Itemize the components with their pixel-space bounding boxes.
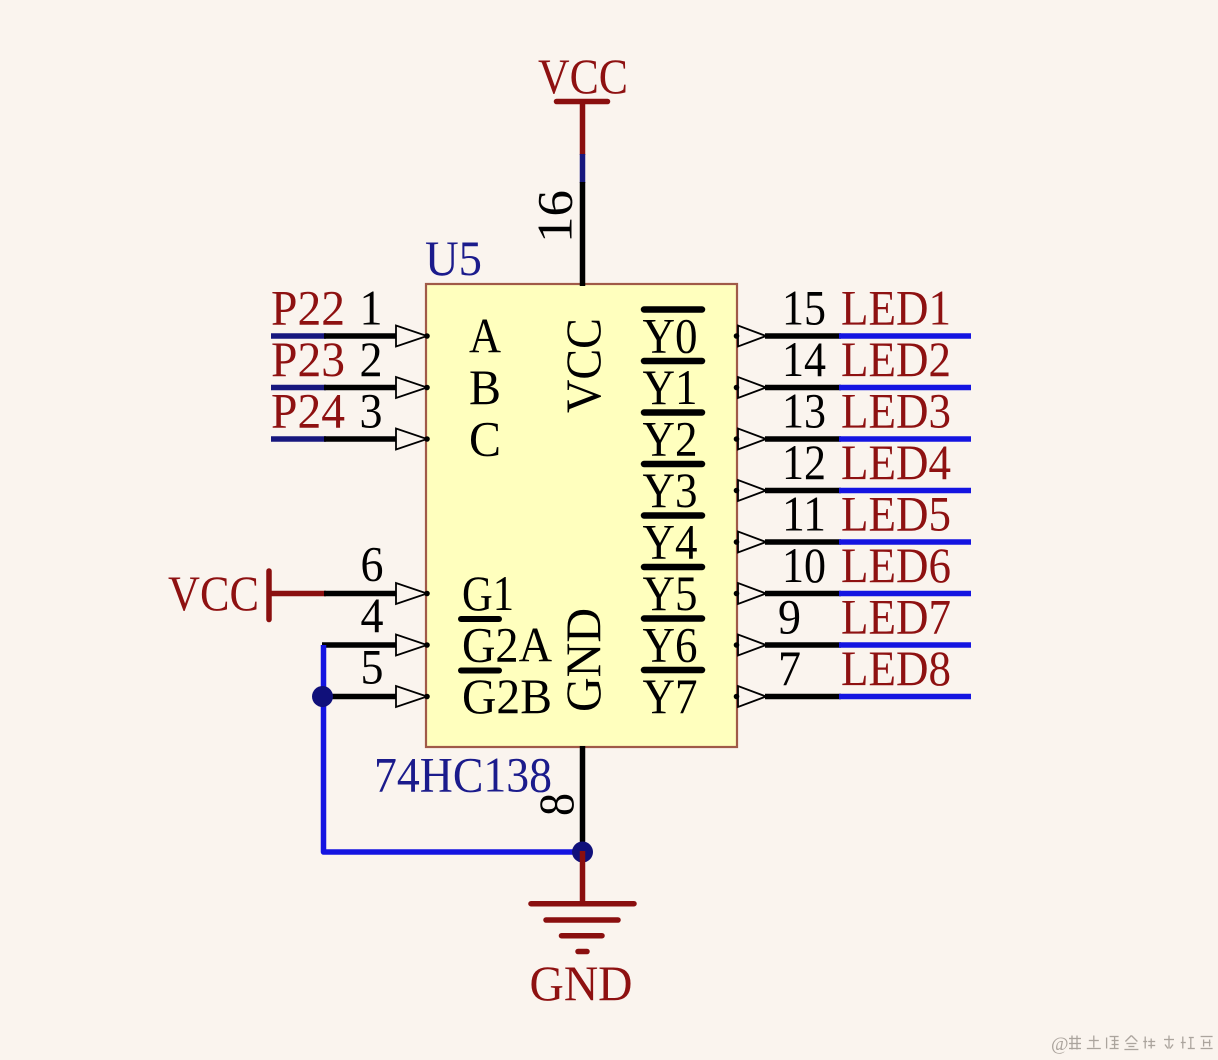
junction dot pin5 bbox=[312, 686, 333, 707]
svg-text:Y4: Y4 bbox=[643, 514, 698, 570]
svg-text:Y1: Y1 bbox=[643, 359, 698, 415]
svg-text:P23: P23 bbox=[271, 331, 345, 387]
wire Y3 blue segment bbox=[839, 488, 971, 494]
pin name Y5 with overbar bbox=[644, 564, 702, 571]
svg-text:3: 3 bbox=[360, 383, 383, 439]
svg-text:G2B: G2B bbox=[462, 668, 552, 724]
svg-text:VCC: VCC bbox=[555, 318, 611, 413]
pin name Y3 with overbar bbox=[644, 461, 702, 468]
svg-text:Y3: Y3 bbox=[643, 462, 698, 518]
wire black segment into pin 16 bbox=[580, 182, 586, 286]
svg-text:P22: P22 bbox=[271, 280, 345, 336]
pin 4 input arrow bbox=[396, 635, 427, 656]
pin 14 output arrow bbox=[738, 377, 766, 398]
pin name Y6 with overbar bbox=[644, 615, 702, 622]
svg-text:LED5: LED5 bbox=[841, 486, 951, 542]
svg-text:GND: GND bbox=[530, 955, 633, 1011]
pin 3 input arrow bbox=[396, 429, 427, 450]
wire Y0 black segment bbox=[765, 333, 841, 339]
svg-text:Y6: Y6 bbox=[643, 617, 698, 673]
svg-text:LED3: LED3 bbox=[841, 383, 951, 439]
svg-text:Y0: Y0 bbox=[643, 308, 698, 364]
svg-text:LED6: LED6 bbox=[841, 537, 951, 593]
svg-text:LED8: LED8 bbox=[841, 640, 951, 696]
IC U5 74HC138 body bbox=[426, 284, 737, 747]
wire pin 8 black segment bbox=[580, 746, 586, 853]
wire Y3 black segment bbox=[765, 488, 841, 494]
wire P24 navy segment bbox=[271, 436, 326, 442]
pin 12 output arrow bbox=[738, 480, 766, 501]
wire pin 6 black segment bbox=[324, 591, 397, 597]
svg-text:@: @ bbox=[1051, 1034, 1069, 1055]
svg-text:12: 12 bbox=[782, 434, 826, 490]
wire Y7 blue segment bbox=[839, 694, 971, 700]
wire Y6 blue segment bbox=[839, 642, 971, 648]
wire P23 navy segment bbox=[271, 385, 326, 391]
wire Y1 black segment bbox=[765, 385, 841, 391]
svg-text:14: 14 bbox=[782, 331, 826, 387]
wire Y1 blue segment bbox=[839, 385, 971, 391]
svg-text:LED1: LED1 bbox=[841, 280, 951, 336]
svg-text:6: 6 bbox=[361, 536, 384, 592]
wire Y2 black segment bbox=[765, 436, 841, 442]
pin name Y2 with overbar bbox=[644, 409, 702, 416]
junction dot GND node bbox=[572, 842, 593, 863]
svg-text:5: 5 bbox=[361, 639, 384, 695]
svg-text:7: 7 bbox=[778, 640, 801, 696]
svg-text:16: 16 bbox=[527, 190, 583, 243]
svg-text:P24: P24 bbox=[271, 383, 345, 439]
pin name G2B with overbar bbox=[461, 668, 499, 674]
svg-text:9: 9 bbox=[778, 589, 801, 645]
svg-text:Y5: Y5 bbox=[643, 565, 698, 621]
svg-text:G1: G1 bbox=[462, 565, 514, 621]
svg-text:LED7: LED7 bbox=[841, 589, 951, 645]
wire Y6 black segment bbox=[765, 642, 841, 648]
svg-text:11: 11 bbox=[782, 486, 826, 542]
svg-text:10: 10 bbox=[782, 537, 826, 593]
pin 11 output arrow bbox=[738, 532, 766, 553]
svg-text:Y2: Y2 bbox=[643, 411, 698, 467]
svg-text:VCC: VCC bbox=[168, 565, 259, 621]
wire P24 black segment bbox=[324, 436, 397, 442]
wire VCC to pin 16 (red segment) bbox=[580, 99, 586, 155]
pin 13 output arrow bbox=[738, 429, 766, 450]
wire VCC to pin 6 (red segment) bbox=[269, 591, 326, 597]
pin name G2A with overbar bbox=[461, 616, 499, 622]
svg-text:Y7: Y7 bbox=[643, 668, 698, 724]
pin 10 output arrow bbox=[738, 583, 766, 604]
pin 7 output arrow bbox=[738, 686, 766, 707]
pin 1 input arrow bbox=[396, 326, 427, 347]
svg-text:1: 1 bbox=[360, 280, 383, 336]
svg-text:U5: U5 bbox=[425, 230, 482, 286]
svg-text:GND: GND bbox=[555, 608, 611, 712]
pin 2 input arrow bbox=[396, 377, 427, 398]
pin 9 output arrow bbox=[738, 635, 766, 656]
svg-text:C: C bbox=[469, 411, 501, 467]
svg-text:LED2: LED2 bbox=[841, 331, 951, 387]
wire Y5 blue segment bbox=[839, 591, 971, 597]
wire navy segment pin16 bbox=[580, 154, 586, 183]
pin name Y4 with overbar bbox=[644, 512, 702, 519]
svg-text:8: 8 bbox=[528, 793, 584, 816]
wire Y5 black segment bbox=[765, 591, 841, 597]
wire pin 5 black segment bbox=[322, 694, 397, 700]
svg-text:15: 15 bbox=[782, 280, 826, 336]
watermark bbox=[1069, 1036, 1213, 1050]
svg-text:74HC138: 74HC138 bbox=[374, 747, 552, 803]
wire GND node to ground symbol (red) bbox=[580, 851, 586, 906]
wire P22 navy segment bbox=[271, 333, 326, 339]
pin 6 input arrow bbox=[396, 583, 427, 604]
svg-text:13: 13 bbox=[782, 383, 826, 439]
svg-text:2: 2 bbox=[360, 331, 383, 387]
wire Y2 blue segment bbox=[839, 436, 971, 442]
svg-text:G2A: G2A bbox=[462, 617, 552, 673]
svg-text:A: A bbox=[469, 308, 501, 364]
wire Y4 black segment bbox=[765, 539, 841, 545]
wire Y4 blue segment bbox=[839, 539, 971, 545]
wire pin 4 black segment bbox=[322, 642, 397, 648]
svg-text:VCC: VCC bbox=[538, 48, 628, 104]
svg-text:4: 4 bbox=[361, 587, 384, 643]
wire Y7 black segment bbox=[765, 694, 841, 700]
wire P22 black segment bbox=[324, 333, 397, 339]
svg-text:B: B bbox=[469, 359, 501, 415]
pin 15 output arrow bbox=[738, 326, 766, 347]
pin 5 input arrow bbox=[396, 686, 427, 707]
pin name Y7 with overbar bbox=[644, 667, 702, 674]
ground symbol bbox=[531, 901, 634, 907]
pin name Y1 with overbar bbox=[644, 358, 702, 365]
wire blue enable loop (pin4/pin5 to GND node) bbox=[324, 645, 583, 852]
wire Y0 blue segment bbox=[839, 333, 971, 339]
wire P23 black segment bbox=[324, 385, 397, 391]
pin name Y0 with overbar bbox=[644, 306, 702, 313]
svg-text:LED4: LED4 bbox=[841, 434, 951, 490]
